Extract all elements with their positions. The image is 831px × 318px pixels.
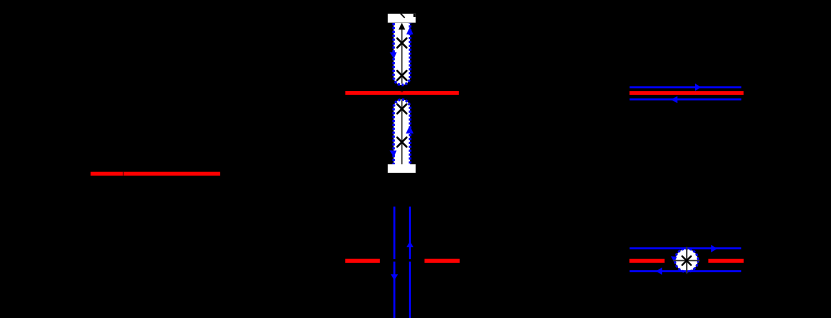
- branch cut (left figure): [91, 172, 221, 176]
- contour arrow up (right side, upper capsule): [406, 27, 413, 34]
- axis line (lower capsule): [401, 100, 403, 167]
- contour arrow up (right side, lower capsule): [406, 126, 414, 134]
- bottom bar (cut end, middle figure): [388, 164, 416, 173]
- branch cut right dash (middle-bottom figure): [425, 259, 460, 263]
- upper contour capsule (middle figure): [394, 23, 410, 85]
- pole circle dotted contour (bottom-right figure): [675, 249, 698, 272]
- pole axes (bottom-right figure): [673, 247, 700, 274]
- lower contour capsule (middle figure): [394, 100, 410, 165]
- branch cut (top-right figure): [630, 91, 744, 95]
- pole circle white disc (bottom-right figure): [675, 249, 698, 272]
- circulation arrow on pole circle: [671, 256, 677, 262]
- hatch slash on top bar: [401, 14, 405, 18]
- contour arrow down (left side, lower capsule): [390, 151, 397, 158]
- pole X1: [397, 38, 406, 47]
- contour below cut (top-right figure): [630, 96, 742, 103]
- branch cut left dash (middle-bottom figure): [345, 259, 380, 263]
- pinched contour left line (middle-bottom figure): [393, 207, 395, 318]
- contour below cut (bottom-right figure): [630, 268, 742, 275]
- pole X (bottom-right figure): [682, 256, 691, 265]
- top bar (cut end, middle figure): [388, 14, 416, 23]
- branch cut (middle figure, horizontal): [345, 91, 459, 95]
- pole X3: [397, 104, 406, 113]
- pinched contour right line (middle-bottom figure): [409, 207, 411, 318]
- up arrow on right line: [406, 241, 413, 247]
- contour above cut (bottom-right figure): [630, 245, 742, 253]
- pole X2: [397, 71, 406, 80]
- axis line with up arrow (upper capsule): [399, 23, 406, 84]
- branch cut right segment (bottom-right figure): [708, 259, 743, 263]
- contour arrow down (left side, upper capsule): [390, 52, 397, 58]
- branch cut left segment (bottom-right figure): [629, 259, 664, 263]
- pole X4: [397, 137, 406, 146]
- down arrow on left line: [391, 274, 398, 280]
- contour above cut (top-right figure): [630, 83, 742, 91]
